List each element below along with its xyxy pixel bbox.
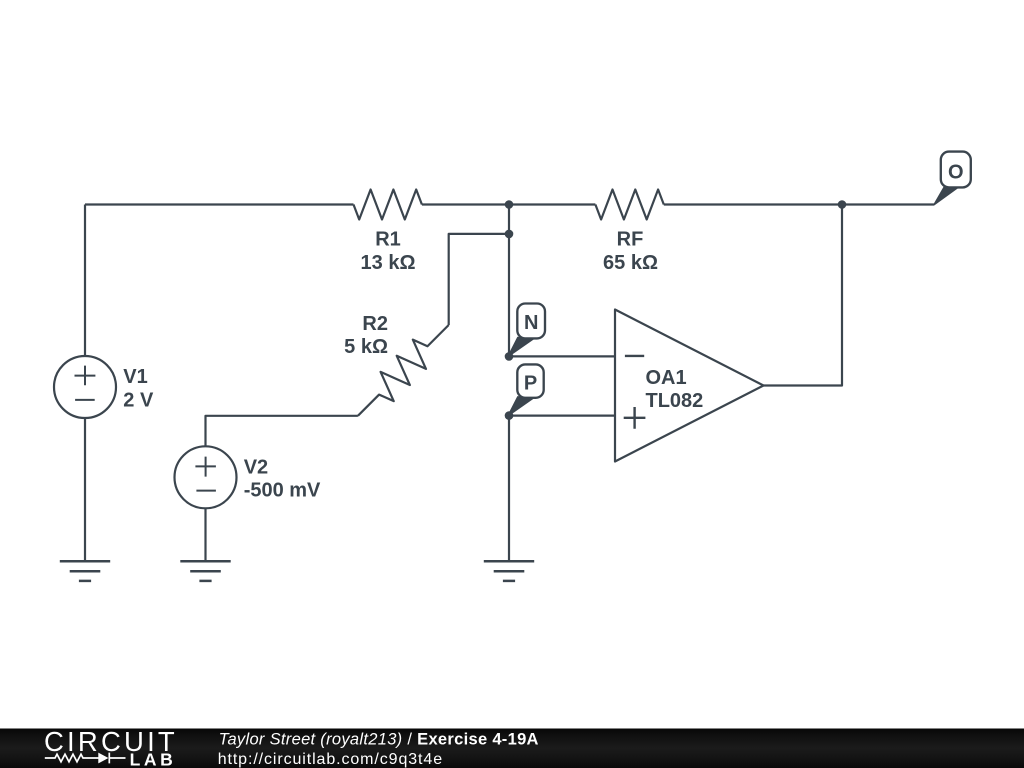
- node junction output: [838, 200, 847, 209]
- svg-text:2 V: 2 V: [123, 389, 154, 411]
- svg-text:P: P: [524, 373, 537, 395]
- op-amp OA1 triangle: [615, 310, 764, 462]
- resistor RF: [595, 190, 663, 220]
- wire junction vertical to node N: [508, 205, 510, 357]
- wire node P to op-amp non-inverting input: [509, 415, 615, 417]
- ground for node P: [484, 561, 534, 581]
- resistor R1: [354, 190, 422, 220]
- label R1 value: [361, 229, 416, 275]
- node junction R1/RF: [505, 200, 514, 209]
- svg-text:13 kΩ: 13 kΩ: [361, 252, 416, 274]
- svg-text:OA1: OA1: [646, 367, 687, 389]
- node P junction: [505, 411, 514, 420]
- flag O output: [934, 152, 971, 205]
- voltage source V2: [175, 446, 237, 508]
- svg-text:Taylor Street (royalt213) / Ex: Taylor Street (royalt213) / Exercise 4-1…: [219, 731, 539, 749]
- flag P: [508, 364, 544, 415]
- svg-text:N: N: [524, 312, 538, 334]
- svg-text:-500 mV: -500 mV: [244, 480, 321, 502]
- op-amp non-inverting input marker: [624, 407, 646, 429]
- svg-text:R1: R1: [375, 229, 401, 251]
- op-amp inverting input marker: [625, 355, 644, 357]
- label V2 value: [244, 457, 321, 502]
- wire node P to ground: [508, 416, 510, 562]
- wire RF to output flag: [664, 203, 935, 205]
- footer logo resistor-diode glyph: [45, 753, 126, 764]
- label RF value: [603, 229, 658, 275]
- svg-text:V2: V2: [244, 457, 268, 479]
- wire top-left from V1 to R1: [85, 205, 354, 357]
- svg-text:5 kΩ: 5 kΩ: [344, 336, 388, 358]
- wire V1 to ground: [84, 418, 86, 561]
- label V1 value: [123, 366, 154, 411]
- voltage source V1: [54, 356, 116, 418]
- svg-text:V1: V1: [123, 366, 147, 388]
- label R2 value: [344, 313, 388, 358]
- ground for V1: [60, 561, 110, 581]
- svg-text:TL082: TL082: [646, 390, 704, 412]
- ground for V2: [180, 561, 230, 581]
- wire V2 to R2: [206, 416, 358, 447]
- resistor R2: [347, 314, 459, 426]
- svg-text:R2: R2: [362, 313, 388, 335]
- wire R1 to RF: [422, 203, 596, 205]
- footer bar: [0, 729, 1024, 768]
- svg-text:65 kΩ: 65 kΩ: [603, 252, 658, 274]
- wire R2 to node N junction: [449, 234, 509, 325]
- label OA1 value: [646, 367, 704, 412]
- node junction R2 branch: [505, 230, 514, 239]
- svg-text:http://circuitlab.com/c9q3t4e: http://circuitlab.com/c9q3t4e: [218, 751, 443, 768]
- wire node N to op-amp inverting input: [509, 355, 615, 357]
- svg-text:LAB: LAB: [130, 749, 177, 768]
- node N junction: [505, 352, 514, 361]
- svg-text:O: O: [948, 162, 964, 184]
- wire op-amp output to top wire: [764, 205, 843, 386]
- svg-text:RF: RF: [617, 229, 644, 251]
- wire V2 to ground: [204, 508, 206, 561]
- flag N: [508, 304, 545, 357]
